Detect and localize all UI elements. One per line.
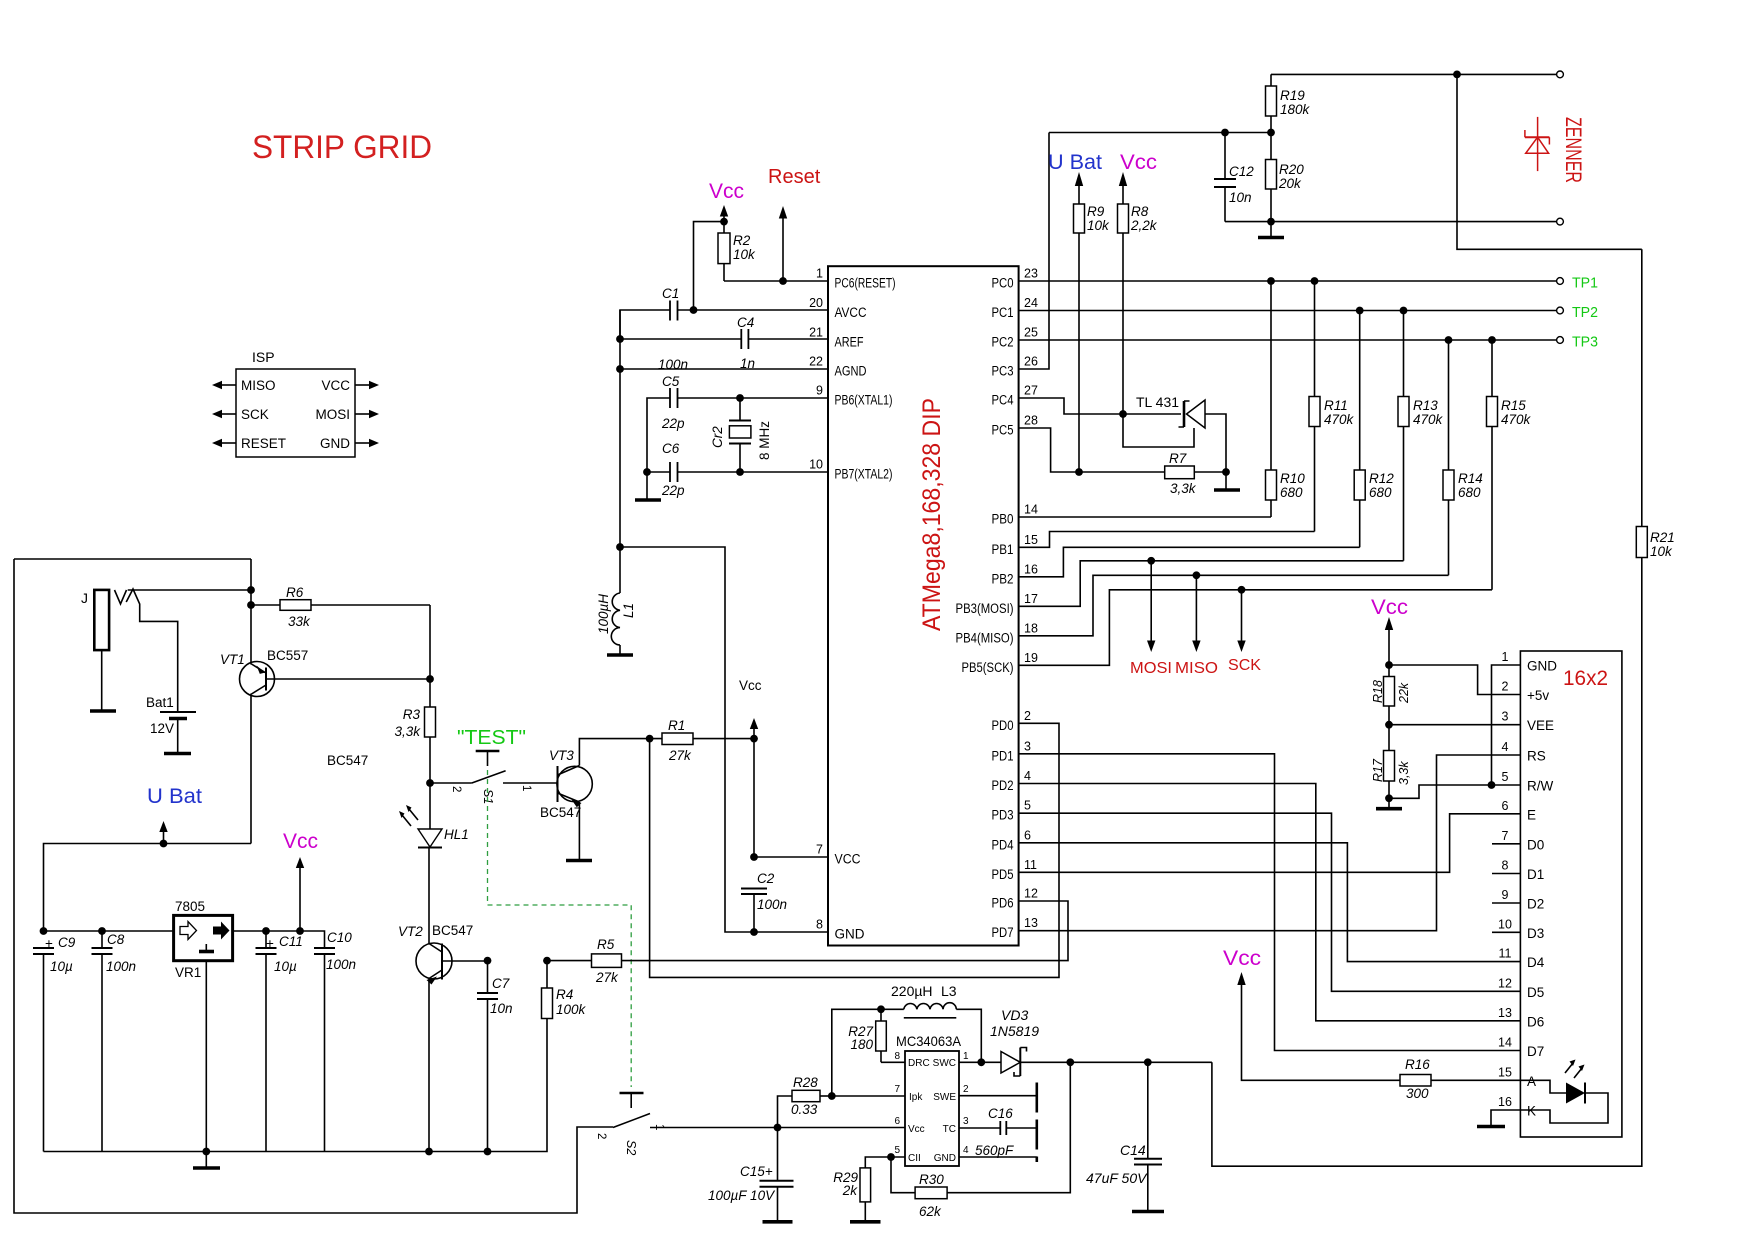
wire GND pin to R/W [1492, 665, 1521, 785]
svg-text:10k: 10k [1650, 544, 1673, 559]
svg-text:BC547: BC547 [327, 753, 368, 768]
svg-text:2: 2 [1502, 680, 1509, 694]
switch S1 TEST pushbutton [476, 750, 500, 752]
node U Bat junction [160, 840, 168, 848]
svg-text:47uF 50V: 47uF 50V [1086, 1170, 1148, 1186]
svg-text:5: 5 [1502, 770, 1509, 784]
node R18/R17 VEE [1385, 721, 1393, 729]
svg-text:ISP: ISP [252, 349, 275, 365]
svg-text:18: 18 [1024, 621, 1038, 635]
pin RESET (ISP) [221, 442, 236, 444]
svg-text:BC557: BC557 [267, 648, 308, 663]
svg-text:TL 431: TL 431 [1136, 394, 1179, 410]
svg-text:2: 2 [450, 786, 462, 792]
svg-text:MISO: MISO [1175, 660, 1218, 677]
svg-text:VCC: VCC [835, 852, 861, 867]
net label Vcc left [299, 867, 301, 931]
svg-text:27k: 27k [595, 970, 619, 985]
svg-text:R19: R19 [1280, 88, 1305, 103]
wire CII pin 5 [865, 1157, 905, 1168]
svg-text:14: 14 [1024, 503, 1038, 517]
svg-text:C2: C2 [757, 871, 775, 886]
svg-text:10k: 10k [1087, 218, 1110, 233]
svg-text:C9: C9 [58, 935, 76, 950]
node C15 / boost input [774, 1124, 782, 1132]
wire GND pin 8 [620, 547, 828, 932]
svg-text:AREF: AREF [835, 335, 864, 350]
svg-text:20: 20 [809, 296, 823, 310]
svg-text:180k: 180k [1280, 102, 1311, 117]
resistor R29 2k [860, 1168, 871, 1202]
svg-text:C16: C16 [988, 1106, 1013, 1121]
svg-text:23: 23 [1024, 267, 1038, 281]
svg-text:22k: 22k [1397, 682, 1411, 704]
resistor R27 180 [880, 1009, 882, 1062]
svg-text:MISO: MISO [241, 378, 276, 393]
svg-text:R8: R8 [1131, 204, 1149, 219]
svg-text:100µF 10V: 100µF 10V [708, 1188, 776, 1203]
node VT1 base / R3 top [426, 675, 434, 683]
svg-text:220µH: 220µH [891, 983, 933, 999]
svg-text:9: 9 [816, 384, 823, 398]
svg-text:PC5: PC5 [992, 423, 1014, 438]
LED HL1 [418, 829, 442, 847]
svg-text:3,3k: 3,3k [1397, 761, 1411, 785]
svg-text:VT2: VT2 [398, 924, 423, 939]
svg-text:2: 2 [963, 1084, 969, 1095]
wire analog rail [619, 310, 621, 547]
wire PC4 pin 27 [1019, 398, 1123, 414]
wire AGND pin 22 [620, 368, 828, 370]
ground divider [1270, 222, 1272, 238]
svg-text:12: 12 [1498, 976, 1512, 990]
wire dashed test link S1-S2 [488, 770, 632, 1087]
wire PC0 to TP1 [1019, 280, 1557, 282]
svg-text:R28: R28 [793, 1075, 818, 1090]
svg-text:R21: R21 [1650, 530, 1675, 545]
svg-text:PB6(XTAL1): PB6(XTAL1) [835, 393, 893, 408]
svg-text:6: 6 [1024, 828, 1031, 842]
svg-text:C11: C11 [279, 934, 303, 949]
svg-text:5: 5 [894, 1145, 900, 1156]
wire left border loop [14, 559, 613, 1213]
svg-text:D0: D0 [1527, 837, 1544, 852]
svg-text:17: 17 [1024, 592, 1038, 606]
wire top battery rail [14, 558, 251, 560]
wire SWE pin 2 [959, 1095, 1037, 1097]
wire PD4 to D4 [1019, 843, 1520, 962]
svg-text:E: E [1527, 807, 1536, 822]
wire PD1 to D7 [1019, 754, 1520, 1051]
net arrow MOSI [1147, 557, 1155, 565]
wire R5 to PD6 [622, 901, 1069, 961]
svg-text:13: 13 [1498, 1006, 1512, 1020]
svg-text:100n: 100n [106, 959, 136, 974]
capacitor C15 100µF 10V [777, 1128, 779, 1222]
capacitor C1 100n [620, 310, 828, 339]
capacitor C8 100n [101, 931, 103, 1152]
wire 7805 input rail [44, 931, 325, 948]
svg-text:8: 8 [1502, 859, 1509, 873]
svg-text:HL1: HL1 [444, 827, 469, 842]
svg-text:GND: GND [1527, 659, 1557, 674]
resistor R21 10k [1636, 527, 1647, 558]
svg-text:12V: 12V [150, 721, 174, 736]
wire K pin ground [1491, 1110, 1520, 1127]
svg-text:1: 1 [520, 785, 532, 791]
svg-text:2k: 2k [842, 1183, 859, 1198]
svg-text:L3: L3 [941, 983, 957, 999]
svg-text:21: 21 [809, 326, 823, 340]
wire U Bat line [44, 844, 252, 932]
resistor R6 33k [251, 604, 430, 606]
svg-text:7: 7 [1502, 829, 1509, 843]
svg-text:VD3: VD3 [1001, 1007, 1028, 1023]
IC U1 ATMega8,168,328 DIP [828, 266, 1019, 945]
svg-text:"TEST": "TEST" [457, 727, 526, 749]
svg-text:GND: GND [934, 1153, 956, 1164]
svg-text:10: 10 [1498, 917, 1512, 931]
svg-text:16x2: 16x2 [1563, 667, 1608, 690]
transistor VT1 BC557 [240, 662, 275, 697]
wire boost output to terminal [1212, 74, 1642, 1166]
svg-text:3: 3 [1502, 710, 1509, 724]
node R1 left / PD0 drop [646, 735, 654, 743]
svg-text:4: 4 [1024, 769, 1031, 783]
wire bottom ground rail [44, 1019, 548, 1152]
svg-text:10n: 10n [1229, 190, 1252, 205]
svg-text:6: 6 [1502, 799, 1509, 813]
svg-text:U Bat: U Bat [1048, 151, 1102, 174]
svg-text:27: 27 [1024, 384, 1038, 398]
wire Ipk to L3 [832, 1009, 881, 1096]
node jack tip junction [247, 586, 255, 594]
svg-text:R6: R6 [286, 585, 304, 600]
svg-text:8: 8 [816, 918, 823, 932]
svg-text:C10: C10 [327, 930, 352, 945]
svg-text:ATMega8,168,328 DIP: ATMega8,168,328 DIP [918, 398, 946, 631]
resistor R15 470k [1491, 340, 1493, 590]
svg-text:4: 4 [963, 1145, 969, 1156]
svg-text:TP3: TP3 [1572, 334, 1598, 351]
node R3 bottom / S1 [426, 779, 434, 787]
svg-text:C5: C5 [662, 374, 680, 389]
diode zener under test [1525, 117, 1550, 171]
svg-text:680: 680 [1280, 485, 1303, 500]
svg-text:VR1: VR1 [175, 965, 201, 980]
svg-text:100n: 100n [326, 957, 356, 972]
wire VT1 vertical [250, 559, 252, 844]
resistor R8 2,2k [1118, 204, 1129, 233]
pin MOSI (ISP) [355, 413, 370, 415]
svg-text:1N5819: 1N5819 [990, 1023, 1039, 1039]
svg-text:15: 15 [1024, 533, 1038, 547]
svg-text:TP1: TP1 [1572, 275, 1598, 292]
wire VT3 emitter to ground [578, 802, 580, 861]
wire VR1 ground pin [205, 961, 207, 1168]
svg-text:8: 8 [894, 1051, 900, 1062]
connector J jack contacts [115, 589, 178, 712]
node L3 / R27 top [877, 1005, 885, 1013]
svg-text:R5: R5 [597, 937, 615, 952]
svg-text:R1: R1 [668, 718, 685, 733]
svg-text:470k: 470k [1501, 412, 1532, 427]
svg-text:11: 11 [1024, 858, 1037, 872]
resistor R18 22k [1384, 677, 1395, 707]
svg-text:GND: GND [320, 436, 350, 451]
svg-text:R13: R13 [1413, 398, 1438, 413]
svg-text:PD4: PD4 [992, 837, 1014, 852]
svg-text:AVCC: AVCC [835, 305, 867, 320]
svg-text:U Bat: U Bat [147, 785, 202, 808]
wire RESET pin 1 [724, 280, 828, 282]
wire Vcc to +5v pin [1389, 665, 1520, 695]
svg-text:R14: R14 [1458, 471, 1483, 486]
svg-text:PD5: PD5 [992, 867, 1014, 882]
svg-text:PC3: PC3 [992, 364, 1014, 379]
wire VT3 collector net to PD0 [650, 723, 1059, 977]
svg-text:R30: R30 [919, 1172, 944, 1187]
svg-text:5: 5 [1024, 799, 1031, 813]
svg-text:PB4(MISO): PB4(MISO) [956, 630, 1014, 645]
svg-text:SCK: SCK [241, 407, 269, 422]
svg-text:19: 19 [1024, 651, 1038, 665]
resistor R2 10k [718, 233, 730, 264]
svg-text:PC6(RESET): PC6(RESET) [835, 276, 896, 291]
svg-text:11: 11 [1499, 947, 1512, 961]
svg-text:Cr2: Cr2 [710, 426, 725, 448]
svg-text:STRIP GRID: STRIP GRID [252, 129, 432, 165]
wire divider to PC3 [1049, 132, 1271, 134]
wire zener test terminal top [1271, 73, 1557, 75]
svg-text:14: 14 [1498, 1036, 1512, 1050]
svg-text:VCC: VCC [321, 378, 350, 393]
resistor R13 470k [1403, 311, 1405, 561]
svg-text:R16: R16 [1405, 1057, 1430, 1072]
svg-text:SWC: SWC [933, 1058, 956, 1069]
svg-text:PB2: PB2 [992, 571, 1014, 586]
svg-text:22: 22 [809, 355, 823, 369]
wire PD7 to RS [1019, 755, 1520, 931]
svg-text:MC34063A: MC34063A [896, 1033, 962, 1049]
node TL431 ref [1119, 410, 1127, 418]
wire R6 right vertical [429, 605, 431, 707]
node R18 top [1385, 661, 1393, 669]
diode VD3 1N5819 [959, 1061, 1001, 1063]
connector J sleeve [94, 590, 109, 650]
ground VT3 [566, 859, 592, 863]
pin SCK (ISP) [221, 413, 236, 415]
svg-text:SCK: SCK [1228, 657, 1261, 674]
svg-text:C14: C14 [1120, 1142, 1146, 1158]
node TL431 anode / R7 [1222, 468, 1230, 476]
node R6 junction [247, 601, 255, 609]
svg-text:AGND: AGND [835, 364, 867, 379]
wire timing bus bar [1036, 1083, 1039, 1163]
svg-text:9: 9 [1502, 888, 1509, 902]
resistor R1 27k [662, 733, 693, 745]
svg-text:R9: R9 [1087, 204, 1105, 219]
svg-text:22p: 22p [661, 416, 685, 431]
svg-text:560pF: 560pF [975, 1143, 1014, 1158]
capacitor C16 560pF [959, 1127, 1037, 1129]
wire jack tip to VT1 [128, 589, 251, 591]
svg-text:0.33: 0.33 [791, 1102, 818, 1117]
svg-text:26: 26 [1024, 355, 1038, 369]
svg-text:8 MHz: 8 MHz [757, 421, 772, 460]
svg-text:R18: R18 [1371, 680, 1385, 703]
svg-text:20k: 20k [1278, 176, 1302, 191]
capacitor C2 100n [741, 889, 767, 895]
transistor VT2 BC547 [416, 943, 452, 979]
svg-text:Vcc: Vcc [1223, 947, 1261, 970]
svg-text:PC1: PC1 [992, 305, 1014, 320]
svg-text:C4: C4 [737, 315, 754, 330]
svg-text:62k: 62k [919, 1204, 942, 1219]
svg-text:3: 3 [1024, 739, 1031, 753]
svg-text:Vcc: Vcc [1371, 596, 1408, 619]
svg-text:D4: D4 [1527, 955, 1545, 970]
wire PB0 pin 14 [1019, 516, 1271, 518]
svg-text:Vcc: Vcc [908, 1124, 925, 1135]
svg-text:R20: R20 [1279, 162, 1304, 177]
svg-text:680: 680 [1369, 485, 1392, 500]
wire GND pin 4 [959, 1156, 1037, 1158]
svg-text:6: 6 [894, 1116, 900, 1127]
wire zener test terminal bottom [1225, 221, 1557, 223]
svg-text:7: 7 [816, 843, 823, 857]
svg-text:100n: 100n [757, 897, 787, 912]
transistor VT3 BC547 [557, 766, 592, 801]
svg-text:R15: R15 [1501, 398, 1526, 413]
svg-text:33k: 33k [288, 614, 311, 629]
pin GND (ISP) [355, 442, 370, 444]
svg-text:24: 24 [1024, 296, 1038, 310]
svg-text:PC2: PC2 [992, 335, 1014, 350]
svg-text:Vcc: Vcc [1120, 151, 1157, 174]
svg-text:10: 10 [809, 458, 823, 472]
node SWC / L3 [977, 1058, 985, 1066]
connector LCD 16x2 [1520, 651, 1622, 1137]
svg-text:L1: L1 [621, 603, 636, 618]
svg-text:R10: R10 [1280, 471, 1305, 486]
svg-text:VEE: VEE [1527, 718, 1554, 733]
svg-text:7: 7 [894, 1084, 900, 1095]
svg-text:DRC: DRC [908, 1058, 930, 1069]
ground J sleeve [90, 709, 116, 713]
ground C6 [635, 498, 661, 502]
svg-text:C7: C7 [492, 976, 510, 991]
ground TL431 [1225, 472, 1227, 490]
svg-text:C6: C6 [662, 441, 680, 456]
resistor R5 27k [547, 960, 592, 962]
wire PB2 pin 16 [1019, 547, 1360, 577]
crystal Cr2 8 MHz [739, 398, 741, 472]
regulator VR1 7805 [174, 915, 233, 960]
svg-text:Vcc: Vcc [739, 678, 762, 693]
svg-text:PB5(SCK): PB5(SCK) [962, 660, 1014, 675]
svg-text:Ipk: Ipk [909, 1092, 923, 1103]
svg-text:R7: R7 [1169, 451, 1187, 466]
svg-text:300: 300 [1406, 1086, 1429, 1101]
connector ISP header [236, 369, 355, 457]
resistor R14 680 [1448, 340, 1450, 575]
wire Vcc to AVCC [694, 222, 725, 310]
pin MISO (ISP) [221, 384, 236, 386]
svg-text:PD3: PD3 [992, 808, 1014, 823]
wire PC5 pin 28 [1019, 428, 1165, 472]
svg-text:PB3(MOSI): PB3(MOSI) [956, 601, 1014, 616]
svg-text:25: 25 [1024, 326, 1038, 340]
resistor R3 3,3k [425, 707, 436, 737]
resistor R10 680 [1270, 281, 1272, 517]
net arrow MISO [1193, 571, 1201, 579]
svg-text:C15: C15 [740, 1164, 765, 1179]
capacitor C14 47uF 50V [1144, 1058, 1152, 1066]
capacitor C10 100n [314, 948, 335, 954]
svg-text:PD0: PD0 [992, 718, 1014, 733]
svg-text:13: 13 [1024, 916, 1038, 930]
svg-text:Reset: Reset [768, 166, 821, 188]
node R17 bottom / R/W [1385, 794, 1393, 802]
svg-text:R12: R12 [1369, 471, 1394, 486]
svg-text:BC547: BC547 [540, 805, 581, 820]
svg-text:Vcc: Vcc [709, 180, 744, 203]
svg-text:+: + [266, 936, 274, 951]
svg-text:R3: R3 [403, 707, 421, 722]
svg-text:7805: 7805 [175, 899, 205, 914]
resistor R16 300 [1400, 1075, 1431, 1087]
resistor R11 470k [1314, 281, 1316, 532]
svg-text:VT1: VT1 [220, 652, 245, 667]
wire VT3 collector [579, 739, 662, 766]
svg-text:470k: 470k [1324, 412, 1355, 427]
wire PD2 to D6 [1019, 784, 1520, 1021]
svg-text:CII: CII [908, 1153, 921, 1164]
svg-text:S2: S2 [624, 1140, 638, 1155]
ground R17 [1376, 807, 1402, 811]
capacitor C4 1n [620, 338, 828, 340]
svg-text:PB0: PB0 [992, 512, 1014, 527]
wire DRC pin 8 [881, 1061, 905, 1063]
ground backlight K [1477, 1125, 1505, 1129]
svg-text:PD1: PD1 [992, 748, 1014, 763]
capacitor C9 10µ [33, 948, 54, 954]
wire PC1 to TP2 [1019, 310, 1557, 312]
svg-text:R17: R17 [1371, 758, 1385, 782]
svg-text:D6: D6 [1527, 1014, 1544, 1029]
svg-text:RESET: RESET [241, 436, 286, 451]
resistor R20 20k [1270, 133, 1272, 222]
wire PC2 to TP3 [1019, 339, 1557, 341]
svg-text:1: 1 [1502, 650, 1509, 664]
wire PB3 MOSI pin 17 [1019, 561, 1404, 607]
svg-text:PD7: PD7 [992, 925, 1014, 940]
svg-text:PC0: PC0 [992, 276, 1014, 291]
IC U2 MC34063A [905, 1051, 959, 1166]
svg-text:PB1: PB1 [992, 542, 1014, 557]
svg-text:D1: D1 [1527, 867, 1544, 882]
wire PB1 pin 15 [1019, 532, 1315, 548]
svg-text:10µ: 10µ [50, 959, 73, 974]
switch S2 power pushbutton [620, 1092, 644, 1094]
svg-text:+5v: +5v [1527, 688, 1549, 703]
node Vcc pin7 branch [750, 735, 758, 743]
ground main [193, 1166, 220, 1170]
svg-text:2: 2 [1024, 709, 1031, 723]
wire VEE pin 3 [1389, 706, 1520, 725]
svg-text:10µ: 10µ [274, 959, 297, 974]
